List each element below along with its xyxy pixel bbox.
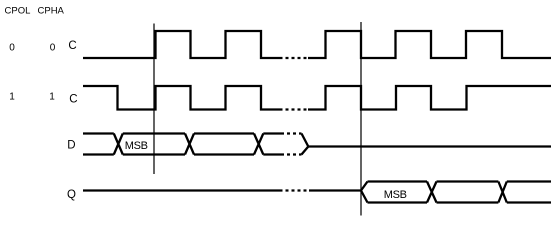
svg-text:Q: Q [67, 189, 76, 201]
svg-text:0: 0 [50, 43, 56, 54]
svg-text:MSB: MSB [125, 140, 148, 152]
svg-text:1: 1 [49, 92, 55, 103]
svg-text:0: 0 [9, 43, 15, 54]
svg-text:C: C [69, 93, 77, 105]
svg-text:D: D [67, 139, 75, 151]
svg-text:C: C [68, 40, 76, 52]
svg-text:1: 1 [9, 92, 15, 103]
svg-text:MSB: MSB [384, 189, 407, 201]
svg-text:CPHA: CPHA [38, 6, 65, 17]
svg-text:CPOL: CPOL [5, 6, 31, 17]
